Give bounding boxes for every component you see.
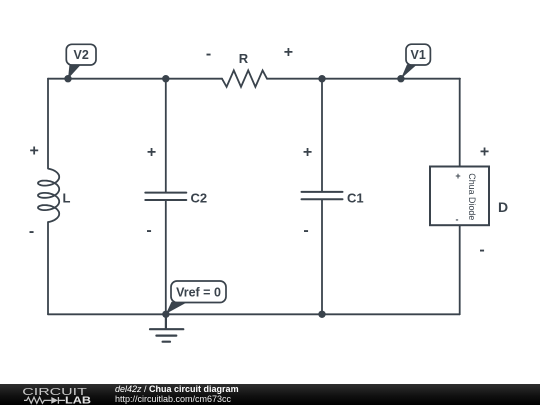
- svg-text:R: R: [239, 51, 249, 66]
- capacitor C1 plates: [302, 192, 343, 199]
- svg-text:C1: C1: [347, 191, 364, 206]
- chua diode box U1: [430, 167, 489, 226]
- svg-text:V2: V2: [74, 48, 89, 62]
- node junction dot V1 tail: [397, 75, 404, 82]
- circuitlab logo: [0, 384, 110, 405]
- node junction dot V2 tail: [64, 75, 71, 82]
- svg-text:C2: C2: [191, 191, 208, 206]
- resistor R zigzag: [222, 70, 267, 87]
- footer title line: [115, 384, 239, 394]
- wire top net V2 segment: [48, 78, 222, 80]
- callout box V2: [66, 44, 96, 65]
- wire C2 branch lower: [165, 201, 167, 315]
- wire C2 branch upper: [165, 79, 167, 192]
- ground symbol: [150, 314, 183, 341]
- callout tail Vref: [166, 302, 188, 314]
- svg-text:L: L: [63, 191, 71, 206]
- svg-text:+: +: [30, 143, 39, 160]
- wire right vertical upper: [459, 79, 461, 167]
- callout box V1: [406, 44, 430, 65]
- svg-text:+: +: [303, 144, 312, 161]
- footer bar: [0, 384, 540, 405]
- wire top net V1 segment: [267, 78, 460, 80]
- svg-text:-: -: [303, 222, 308, 239]
- svg-text:Chua Diode: Chua Diode: [467, 173, 477, 220]
- svg-text:+: +: [284, 44, 293, 61]
- svg-text:+: +: [455, 171, 460, 181]
- node junction dot C1 top: [318, 75, 325, 82]
- wire C1 branch lower: [321, 200, 323, 315]
- footer url line: [115, 394, 231, 404]
- callout box Vref: [171, 281, 226, 303]
- svg-text:Vref = 0: Vref = 0: [176, 285, 221, 299]
- svg-text:-: -: [29, 223, 34, 240]
- svg-text:+: +: [480, 144, 489, 161]
- svg-text:-: -: [479, 242, 484, 259]
- wire right vertical lower: [459, 225, 461, 314]
- svg-text:LAB: LAB: [65, 395, 91, 405]
- node junction dot ground: [162, 311, 169, 318]
- svg-text:-: -: [146, 222, 151, 239]
- svg-text:+: +: [147, 144, 156, 161]
- capacitor C2 plates: [145, 193, 186, 200]
- svg-text:V1: V1: [411, 48, 426, 62]
- wire bottom net: [48, 313, 460, 315]
- node junction dot C2 top: [162, 75, 169, 82]
- node junction dot C1 bottom: [318, 311, 325, 318]
- wire left vertical upper: [47, 79, 49, 169]
- inductor L coil: [38, 169, 59, 222]
- callout tail V1: [401, 65, 417, 79]
- wire left vertical lower: [47, 222, 49, 314]
- svg-text:-: -: [206, 46, 211, 63]
- svg-text:D: D: [498, 199, 508, 215]
- wire C1 branch upper: [321, 79, 323, 192]
- svg-text:-: -: [456, 215, 459, 225]
- callout tail V2: [68, 65, 81, 79]
